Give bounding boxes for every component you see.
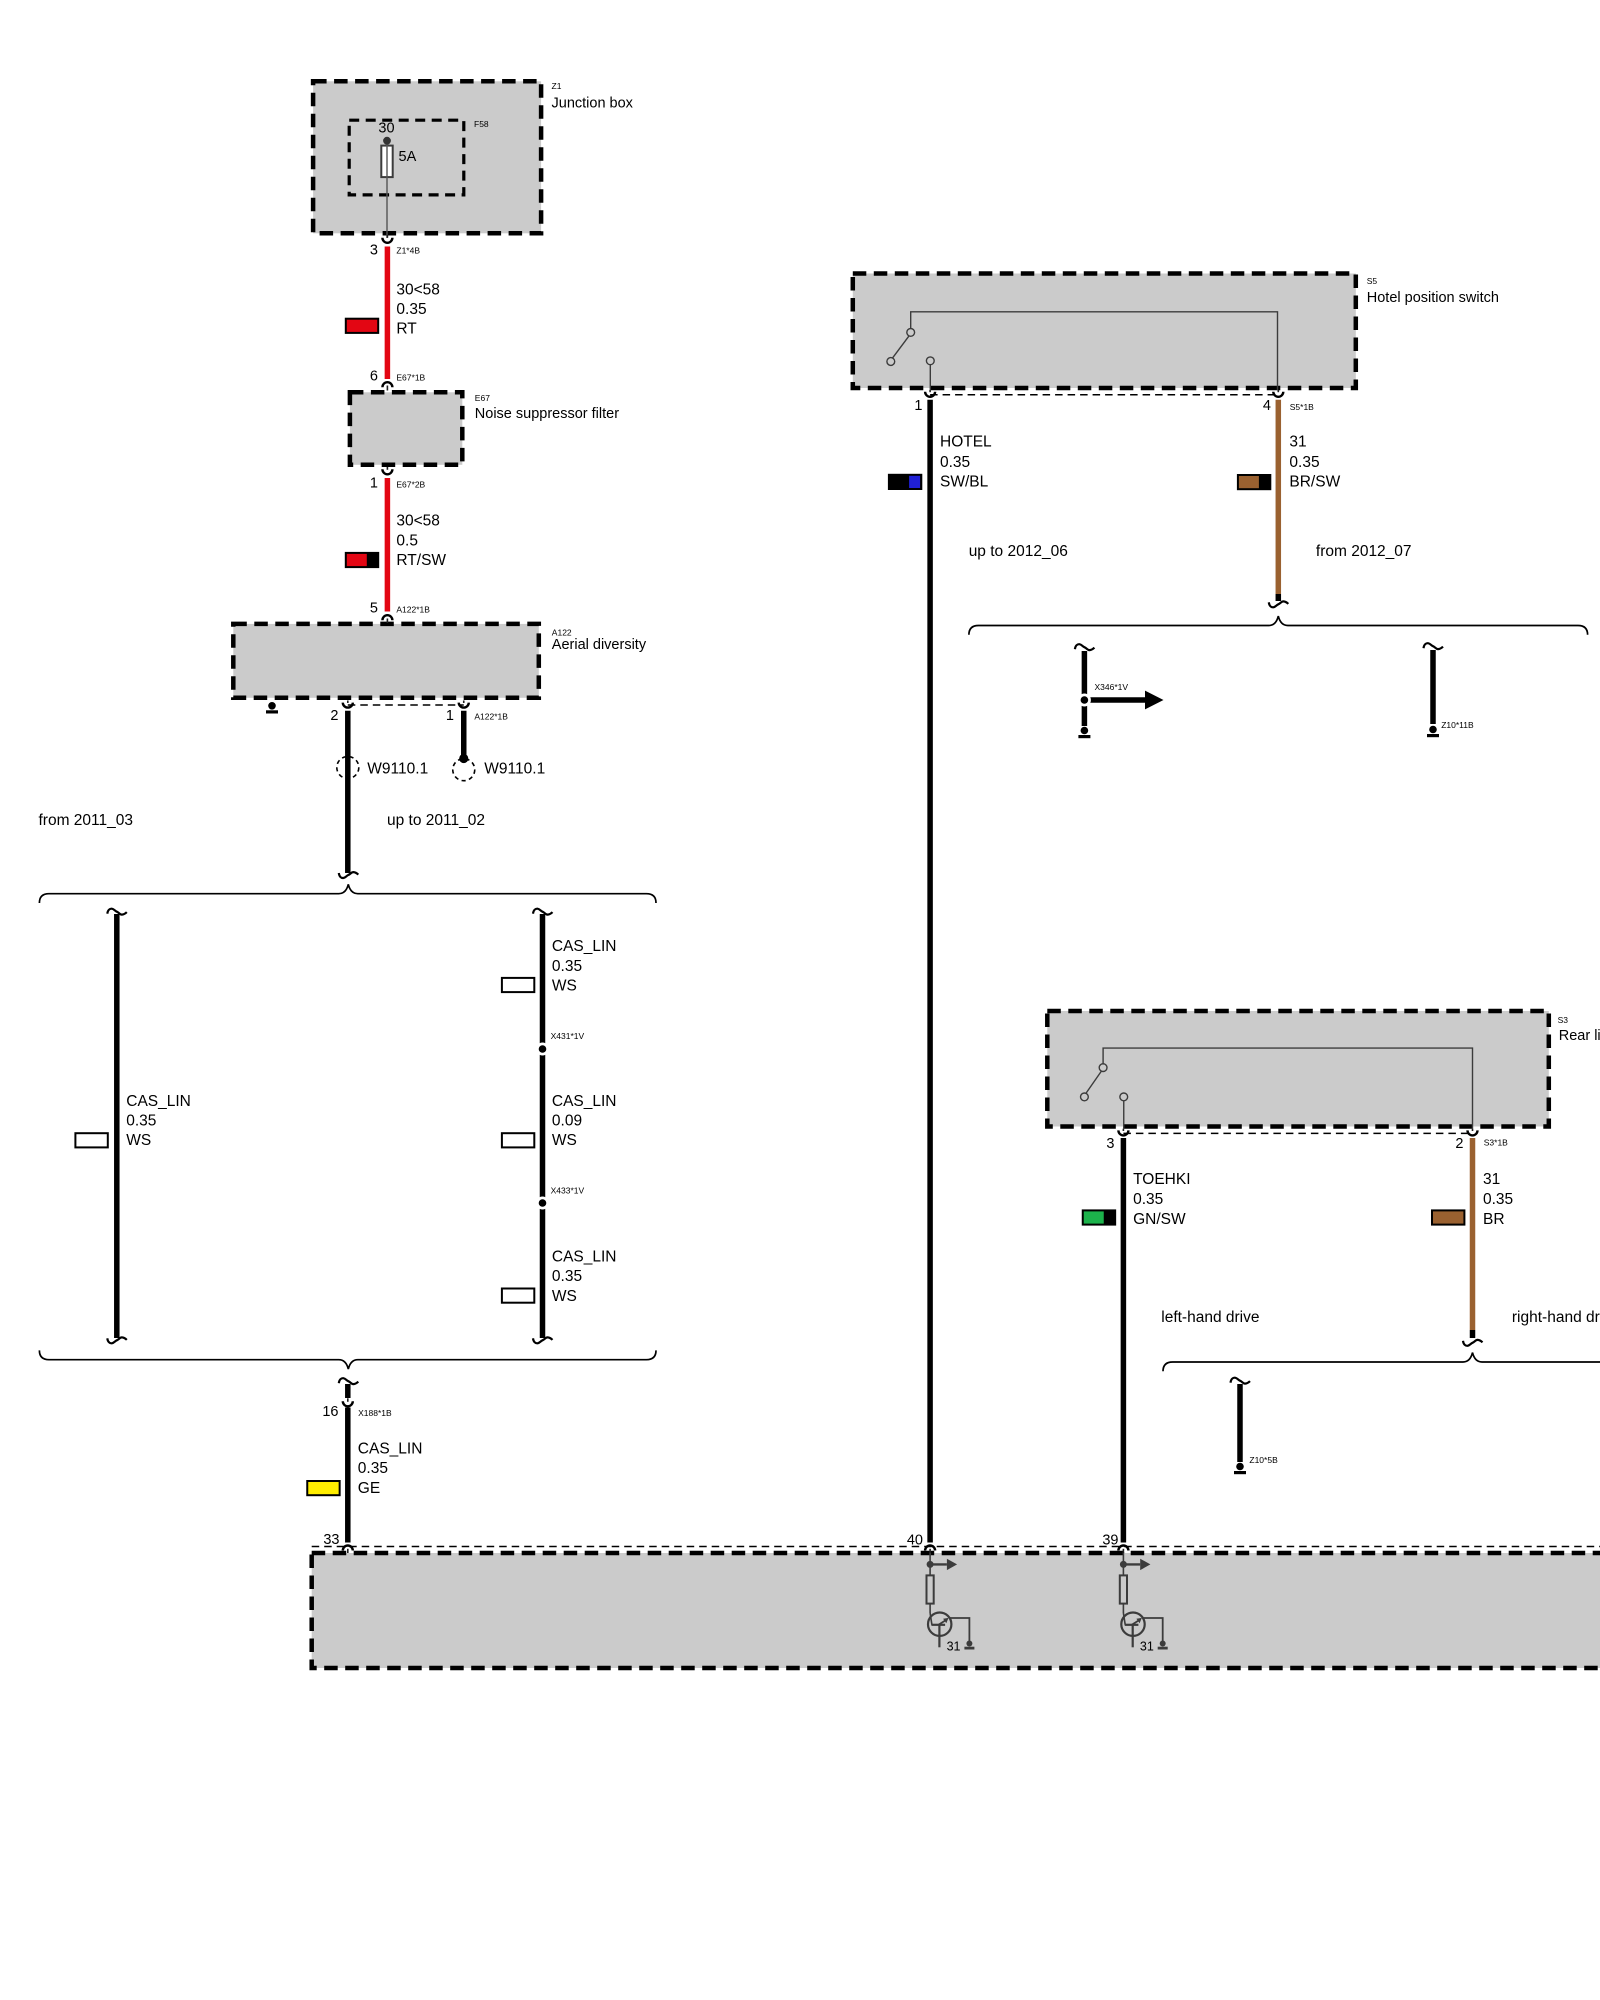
svg-text:5A: 5A	[399, 149, 417, 165]
svg-text:31: 31	[1289, 434, 1306, 451]
svg-text:from 2011_03: from 2011_03	[39, 812, 134, 829]
svg-text:up to 2011_02: up to 2011_02	[387, 812, 485, 829]
svg-text:30<58: 30<58	[396, 513, 440, 530]
svg-text:S3: S3	[1558, 1015, 1569, 1025]
svg-text:E67*1B: E67*1B	[396, 372, 425, 382]
svg-text:X433*1V: X433*1V	[551, 1186, 585, 1196]
svg-text:2: 2	[330, 708, 338, 724]
svg-text:BR: BR	[1483, 1211, 1505, 1228]
svg-text:X431*1V: X431*1V	[551, 1031, 585, 1041]
svg-text:S5: S5	[1367, 276, 1378, 286]
svg-text:39: 39	[1102, 1533, 1118, 1549]
svg-text:S5*1B: S5*1B	[1290, 402, 1314, 412]
svg-text:GN/SW: GN/SW	[1133, 1211, 1186, 1228]
svg-text:F58: F58	[474, 119, 489, 129]
svg-text:0.35: 0.35	[396, 301, 426, 318]
svg-text:S3*1B: S3*1B	[1484, 1138, 1508, 1148]
svg-text:0.35: 0.35	[940, 454, 970, 471]
svg-text:from 2012_07: from 2012_07	[1316, 543, 1412, 560]
svg-text:0.35: 0.35	[126, 1112, 156, 1129]
svg-text:16: 16	[322, 1404, 338, 1420]
svg-text:E67: E67	[475, 393, 490, 403]
svg-text:Hotel position switch: Hotel position switch	[1367, 290, 1499, 306]
svg-text:BR/SW: BR/SW	[1289, 474, 1340, 491]
svg-text:Z1: Z1	[552, 81, 562, 91]
svg-text:Aerial diversity: Aerial diversity	[552, 637, 647, 653]
svg-text:0.35: 0.35	[1483, 1191, 1513, 1208]
svg-text:30<58: 30<58	[396, 281, 440, 298]
svg-text:A122: A122	[552, 627, 572, 637]
svg-text:1: 1	[370, 476, 378, 492]
svg-text:4: 4	[1263, 398, 1271, 414]
svg-text:right-hand drive: right-hand drive	[1512, 1309, 1600, 1326]
svg-text:0.35: 0.35	[1289, 454, 1319, 471]
svg-text:CAS_LIN: CAS_LIN	[552, 1249, 617, 1266]
svg-text:Z1*4B: Z1*4B	[396, 246, 420, 256]
svg-text:Z10*5B: Z10*5B	[1249, 1455, 1278, 1465]
svg-text:33: 33	[323, 1532, 339, 1548]
svg-text:RT/SW: RT/SW	[396, 552, 446, 569]
svg-text:0.35: 0.35	[552, 958, 582, 975]
svg-text:30: 30	[378, 120, 394, 136]
svg-text:WS: WS	[126, 1132, 151, 1149]
svg-text:TOEHKI: TOEHKI	[1133, 1171, 1190, 1188]
svg-text:A122*1B: A122*1B	[474, 711, 508, 721]
svg-text:CAS_LIN: CAS_LIN	[358, 1440, 423, 1457]
svg-text:5: 5	[370, 601, 378, 617]
svg-text:WS: WS	[552, 1288, 577, 1305]
svg-text:0.35: 0.35	[1133, 1191, 1163, 1208]
svg-text:X346*1V: X346*1V	[1095, 682, 1129, 692]
svg-text:left-hand drive: left-hand drive	[1161, 1309, 1259, 1326]
svg-text:CAS_LIN: CAS_LIN	[552, 1093, 617, 1110]
svg-text:up to 2012_06: up to 2012_06	[969, 543, 1068, 560]
svg-text:0.35: 0.35	[358, 1460, 388, 1477]
svg-text:2: 2	[1455, 1136, 1463, 1152]
svg-text:GE: GE	[358, 1480, 380, 1497]
svg-text:0.35: 0.35	[552, 1268, 582, 1285]
svg-text:0.5: 0.5	[396, 532, 418, 549]
svg-text:A122*1B: A122*1B	[396, 605, 430, 615]
svg-text:RT: RT	[396, 321, 417, 338]
svg-text:1: 1	[914, 398, 922, 414]
svg-text:W9110.1: W9110.1	[484, 761, 545, 778]
svg-text:CAS_LIN: CAS_LIN	[552, 938, 617, 955]
svg-text:3: 3	[1106, 1136, 1114, 1152]
svg-text:Noise suppressor filter: Noise suppressor filter	[475, 406, 619, 422]
svg-text:WS: WS	[552, 1132, 577, 1149]
svg-text:CAS_LIN: CAS_LIN	[126, 1093, 191, 1110]
svg-text:E67*2B: E67*2B	[396, 480, 425, 490]
svg-text:Junction box: Junction box	[552, 96, 634, 112]
svg-text:40: 40	[907, 1533, 923, 1549]
svg-text:6: 6	[370, 368, 378, 384]
svg-text:31: 31	[1483, 1171, 1500, 1188]
svg-text:SW/BL: SW/BL	[940, 474, 989, 491]
svg-text:Rear lid switch: Rear lid switch	[1559, 1028, 1600, 1044]
svg-text:WS: WS	[552, 978, 577, 995]
svg-text:1: 1	[446, 708, 454, 724]
svg-text:X188*1B: X188*1B	[358, 1408, 392, 1418]
svg-text:Z10*11B: Z10*11B	[1441, 720, 1474, 730]
svg-text:W9110.1: W9110.1	[367, 761, 428, 778]
svg-text:0.09: 0.09	[552, 1112, 582, 1129]
svg-text:HOTEL: HOTEL	[940, 434, 992, 451]
svg-text:3: 3	[370, 242, 378, 258]
